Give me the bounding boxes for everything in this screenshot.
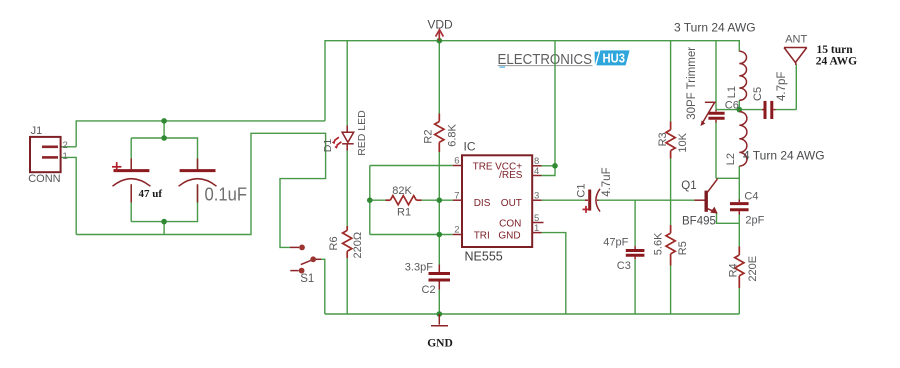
svg-text:C3: C3 bbox=[617, 260, 631, 272]
junction dot: cap bank loop top bbox=[161, 135, 167, 141]
svg-text:/RES: /RES bbox=[499, 170, 523, 181]
wire: trimmer to L1/L2 junction bbox=[716, 109, 739, 111]
svg-text:6.8K: 6.8K bbox=[447, 124, 459, 147]
svg-text:CONN: CONN bbox=[28, 173, 60, 185]
capacitor C4 2pF bbox=[730, 191, 765, 227]
resistor R6 220ohm bbox=[328, 226, 364, 259]
svg-text:R6: R6 bbox=[328, 236, 340, 250]
note: 15 turn 24 AWG bbox=[816, 44, 857, 68]
ground GND symbol bbox=[427, 314, 453, 350]
svg-text:5.6K: 5.6K bbox=[653, 232, 665, 255]
svg-text:30PF Trimmer: 30PF Trimmer bbox=[686, 47, 698, 120]
wire: top VDD rail with left and right corner drops bbox=[325, 41, 739, 121]
svg-text:C2: C2 bbox=[422, 284, 436, 296]
wire: VDD center branch through R2 C2 bbox=[438, 41, 440, 314]
wire: capacitor bank bottom stub bbox=[163, 222, 165, 235]
junction dot: VDD top rail bbox=[437, 38, 443, 44]
svg-text:Q1: Q1 bbox=[681, 180, 696, 192]
svg-text:GND: GND bbox=[427, 338, 453, 350]
svg-text:GND: GND bbox=[498, 230, 520, 241]
svg-text:R4: R4 bbox=[728, 263, 740, 277]
wire: J1 pin 1 to bottom-left rail bbox=[61, 157, 77, 234]
wire: J1 pin 2 stub bbox=[61, 146, 77, 148]
LED D1 (RED LED) bbox=[322, 110, 368, 156]
wire: IC pin 2 TRI net bbox=[370, 234, 453, 236]
wire: switch S1 top contact red lead bbox=[290, 246, 299, 248]
wire: left loop TRE-TRI bbox=[369, 166, 371, 235]
inductor L1 (3 turn) bbox=[726, 51, 747, 100]
wire: R1 to DIS pin 7 net bbox=[370, 199, 453, 201]
capacitor C5 4.7pF bbox=[752, 72, 788, 119]
svg-text:NE555: NE555 bbox=[465, 249, 503, 263]
resistor R1 82K bbox=[386, 185, 422, 219]
svg-text:CON: CON bbox=[499, 219, 521, 230]
inductor L2 (4 turn) bbox=[725, 112, 747, 166]
svg-text:C4: C4 bbox=[744, 191, 758, 203]
wire: bottom-left rail zigzag path to switch S1 bbox=[76, 133, 325, 247]
resistor R2 6.8K bbox=[423, 114, 459, 153]
junction dot: cap bank top rail bbox=[161, 118, 167, 124]
power VDD symbol bbox=[427, 18, 453, 41]
transistor Q1 BF495 bbox=[681, 178, 717, 227]
svg-text:82K: 82K bbox=[392, 185, 412, 197]
svg-text:R3: R3 bbox=[657, 132, 669, 146]
svg-text:2: 2 bbox=[63, 140, 68, 151]
switch S1 bbox=[290, 245, 321, 285]
wire: L1 top lead bbox=[738, 50, 740, 53]
wire: capacitor bank loop bbox=[131, 138, 197, 222]
svg-text:4 Turn 24 AWG: 4 Turn 24 AWG bbox=[743, 149, 825, 163]
wire: R5 branch bbox=[670, 200, 672, 314]
svg-text:7: 7 bbox=[454, 190, 459, 201]
svg-text:4.7uF: 4.7uF bbox=[601, 167, 613, 196]
wire: L2 bottom to collector node bbox=[738, 166, 740, 178]
svg-text:C1: C1 bbox=[575, 184, 587, 198]
junction dot: VCC pins 8/4 bbox=[552, 163, 558, 169]
svg-text:47 uf: 47 uf bbox=[139, 188, 163, 200]
resistor R3 10K bbox=[657, 122, 689, 159]
svg-text:TRE: TRE bbox=[473, 161, 493, 172]
svg-text:C5: C5 bbox=[752, 87, 764, 101]
svg-text:R1: R1 bbox=[397, 207, 411, 219]
junction dot: TRI node bbox=[437, 232, 443, 238]
wire: collector node horizontal bbox=[716, 177, 739, 179]
svg-text:15 turn: 15 turn bbox=[817, 44, 854, 56]
svg-text:C6: C6 bbox=[725, 99, 739, 111]
junction dot: ground rail at C2 bbox=[437, 311, 443, 317]
capacitor C1 4.7uF (polarized) bbox=[575, 167, 613, 213]
junction dot: cap bank loop bottom bbox=[161, 219, 167, 225]
svg-text:1: 1 bbox=[534, 223, 539, 234]
svg-text:0.1uF: 0.1uF bbox=[205, 184, 248, 205]
resistor R5 5.6K bbox=[653, 225, 689, 266]
svg-text:220E: 220E bbox=[747, 256, 759, 282]
svg-text:L2: L2 bbox=[725, 153, 737, 165]
svg-text:2: 2 bbox=[454, 225, 459, 236]
wire: R4 to bottom rail bbox=[738, 223, 740, 314]
junction dot: R1 left on TRE loop bbox=[367, 197, 373, 203]
trimmer capacitor C6 30PF bbox=[686, 47, 739, 126]
svg-text:S1: S1 bbox=[300, 273, 314, 285]
svg-text:R2: R2 bbox=[423, 130, 435, 144]
junction dot: DIS node bbox=[437, 197, 443, 203]
wire: pin 1 GND net bbox=[542, 233, 566, 314]
svg-text:R5: R5 bbox=[677, 241, 689, 255]
wire: left top rail to J1 pin 2 riser bbox=[76, 121, 325, 147]
op-amp/timer IC U1 NE555 bbox=[453, 140, 544, 264]
wire: C3 branch bbox=[634, 200, 636, 314]
junction dot: L1/L2/C6/C5 node bbox=[737, 107, 743, 113]
svg-text:220Ω: 220Ω bbox=[352, 232, 364, 259]
svg-text:47pF: 47pF bbox=[603, 236, 628, 248]
svg-text:ANT: ANT bbox=[785, 33, 807, 45]
svg-text:J1: J1 bbox=[31, 125, 43, 137]
svg-text:HU3: HU3 bbox=[603, 51, 626, 66]
antenna ANT bbox=[784, 33, 807, 65]
svg-text:VDD: VDD bbox=[427, 18, 453, 32]
svg-text:24 AWG: 24 AWG bbox=[816, 56, 857, 68]
svg-text:6: 6 bbox=[454, 156, 459, 167]
svg-text:D1: D1 bbox=[322, 139, 334, 153]
wire: capacitor bank top stub bbox=[163, 121, 165, 138]
wire: switch common to bottom rail bbox=[317, 259, 325, 314]
wire: bottom ground rail bbox=[325, 313, 740, 315]
wire: R3 branch bbox=[670, 41, 672, 201]
capacitor 0.1uF bbox=[179, 159, 247, 205]
svg-text:1: 1 bbox=[63, 151, 68, 162]
wire: D1/R6 branch from top rail to bottom rail bbox=[346, 41, 348, 314]
svg-text:BF495: BF495 bbox=[682, 216, 716, 228]
svg-text:2pF: 2pF bbox=[745, 215, 764, 227]
svg-text:4: 4 bbox=[534, 166, 539, 177]
svg-text:OUT: OUT bbox=[501, 198, 522, 209]
svg-text:10K: 10K bbox=[677, 132, 689, 152]
connector J1 bbox=[28, 125, 68, 185]
svg-text:RED LED: RED LED bbox=[356, 110, 368, 156]
wire: pin 8 and pin 4 net to top rail bbox=[542, 41, 556, 176]
svg-text:DIS: DIS bbox=[474, 198, 491, 209]
capacitor 47uF (polarized) bbox=[112, 159, 162, 203]
svg-text:4.7pF: 4.7pF bbox=[776, 72, 788, 101]
wire: C5 net from junction to antenna bbox=[739, 65, 796, 110]
svg-text:3.3pF: 3.3pF bbox=[405, 262, 433, 274]
resistor R4 220E bbox=[728, 247, 759, 289]
svg-text:3: 3 bbox=[534, 190, 539, 201]
wire: L1 bottom to junction bbox=[738, 100, 740, 109]
capacitor C3 47pF bbox=[603, 236, 644, 272]
wire: IC pin 6 net bbox=[370, 165, 453, 167]
capacitor C2 3.3pF bbox=[405, 262, 450, 297]
logo Electronics Hub bbox=[498, 50, 630, 68]
wire: emitter to C4/R4 node bbox=[717, 213, 740, 224]
wire: OUT pin 3 net to Q1 base bbox=[542, 199, 695, 201]
svg-text:L1: L1 bbox=[726, 86, 738, 98]
svg-text:TRI: TRI bbox=[474, 230, 490, 241]
svg-text:3 Turn 24 AWG: 3 Turn 24 AWG bbox=[674, 21, 756, 35]
svg-text:IC: IC bbox=[464, 140, 476, 154]
wire: trimmer branch from top rail bbox=[715, 41, 717, 179]
wire: collector node through C4 to emitter node bbox=[738, 178, 740, 223]
